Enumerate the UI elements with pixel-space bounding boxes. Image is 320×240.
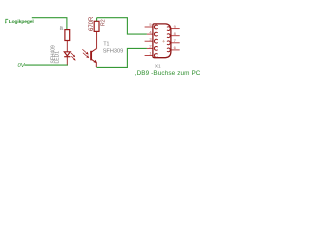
- svg-text:SFH309: SFH309: [103, 49, 124, 55]
- svg-text:LED1: LED1: [55, 51, 61, 64]
- svg-text:R2: R2: [100, 19, 106, 26]
- svg-text:X1: X1: [155, 63, 161, 68]
- svg-text:R1: R1: [60, 27, 64, 31]
- svg-text:0V: 0V: [18, 63, 26, 69]
- svg-text:670R: 670R: [89, 16, 95, 31]
- svg-text:T1: T1: [103, 42, 109, 48]
- svg-text:Logikpegel: Logikpegel: [9, 19, 35, 25]
- svg-text:,DB9 -Buchse zum PC: ,DB9 -Buchse zum PC: [135, 70, 200, 77]
